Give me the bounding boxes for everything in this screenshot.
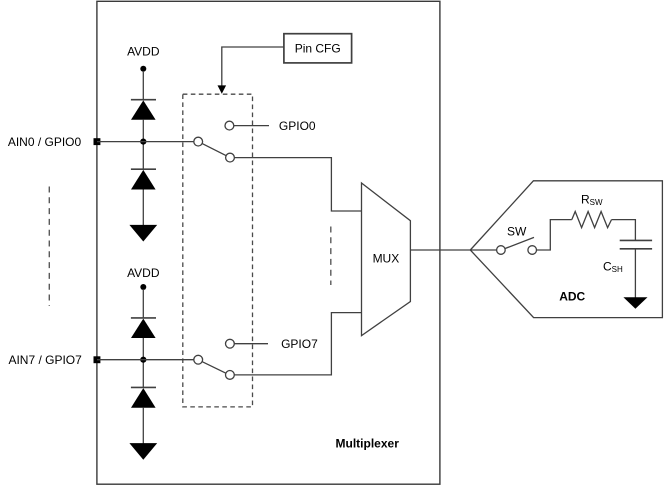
wire RSW to capacitor CSH <box>612 220 636 241</box>
terminal square AIN0 <box>94 138 101 145</box>
GPIO7 pin circle <box>226 339 235 348</box>
channel ellipsis dashed line (mux inputs) <box>330 227 332 286</box>
ESD diode D1 triangle <box>131 100 156 119</box>
ESD diode D1 cathode bar <box>131 99 156 101</box>
svg-text:SW: SW <box>507 225 527 239</box>
wire S0 throw to MUX input 0 <box>234 158 361 211</box>
wire D4 to ground arrow (channel 7) <box>142 408 144 445</box>
switch S7 pole circle <box>194 355 203 364</box>
svg-text:RSW: RSW <box>581 193 603 208</box>
wire CSH to ground <box>634 249 636 298</box>
dashed config switch box <box>183 94 253 407</box>
wire S7 throw to MUX input 7 <box>234 313 361 375</box>
switch S0 arm <box>202 144 226 156</box>
GPIO0 pin circle <box>225 121 234 130</box>
svg-text:AIN0 / GPIO0: AIN0 / GPIO0 <box>8 135 82 149</box>
node AIN0 junction dot <box>140 139 146 145</box>
svg-text:CSH: CSH <box>603 259 623 274</box>
multiplexer block outline <box>97 1 440 484</box>
svg-text:AIN7 / GPIO7: AIN7 / GPIO7 <box>8 353 82 367</box>
wire MUX output to ADC <box>410 249 470 251</box>
wire D3 to node AIN7 to diode D4 <box>142 338 144 387</box>
svg-text:ADC: ADC <box>559 289 585 303</box>
ground arrow (ADC) <box>623 297 647 309</box>
svg-text:AVDD: AVDD <box>127 266 160 280</box>
capacitor CSH bottom plate <box>620 248 652 250</box>
ground arrow (channel 0) <box>129 225 157 242</box>
ADC pentagon outline <box>470 181 662 318</box>
ESD diode D4 cathode bar <box>131 386 156 388</box>
wire AVDD dot to diode D3 <box>142 289 144 318</box>
switch S0 throw circle <box>226 153 235 162</box>
svg-text:GPIO7: GPIO7 <box>281 337 318 351</box>
switch S0 pole circle <box>194 137 203 146</box>
switch SW pole circle <box>497 246 506 255</box>
wire D2 to ground arrow (channel 0) <box>142 190 144 227</box>
node AIN7 junction dot <box>140 357 146 363</box>
resistor RSW zigzag <box>572 212 612 228</box>
ground arrow (channel 7) <box>129 443 157 460</box>
wire D1 to node AIN0 to diode D2 <box>142 120 144 169</box>
wire GPIO0 stub <box>234 125 269 127</box>
arrowhead into config switch box <box>218 85 227 93</box>
switch S7 throw circle <box>226 371 235 380</box>
wire SW to resistor RSW <box>537 220 572 250</box>
ESD diode D3 triangle <box>131 319 156 338</box>
channel ellipsis dashed line (left) <box>48 187 50 307</box>
wire AIN0 to switch S0 pole <box>97 141 194 143</box>
switch SW arm <box>505 237 534 248</box>
wire ADC vertex to switch SW <box>470 249 496 251</box>
svg-text:Pin CFG: Pin CFG <box>295 41 341 55</box>
ESD diode D3 cathode bar <box>131 317 156 319</box>
wire Pin CFG to config switch box <box>222 47 284 86</box>
switch SW throw circle <box>528 246 537 255</box>
svg-text:AVDD: AVDD <box>127 44 160 58</box>
switch S7 arm <box>202 362 226 374</box>
wire GPIO7 stub <box>234 343 268 345</box>
ESD diode D2 triangle <box>131 170 156 190</box>
svg-text:Multiplexer: Multiplexer <box>336 437 400 451</box>
svg-text:GPIO0: GPIO0 <box>279 119 316 133</box>
terminal square AIN7 <box>94 356 101 363</box>
capacitor CSH top plate <box>620 239 652 241</box>
wire AIN7 to switch S7 pole <box>97 359 194 361</box>
ESD diode D4 triangle <box>131 388 156 408</box>
MUX trapezoid U1 <box>362 183 411 336</box>
AVDD terminal dot (channel 0) <box>140 66 146 72</box>
svg-text:MUX: MUX <box>373 251 400 265</box>
Pin CFG box <box>284 34 352 63</box>
wire AVDD dot to diode D1 <box>142 71 144 100</box>
AVDD terminal dot (channel 7) <box>140 284 146 290</box>
ESD diode D2 cathode bar <box>131 168 156 170</box>
